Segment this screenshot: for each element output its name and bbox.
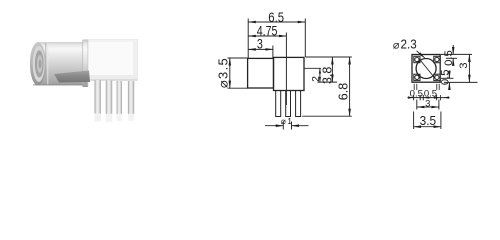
rv ext square bottom [444, 81, 478, 83]
rv ext pin top center [446, 57, 457, 59]
dim line phi3.5 [229, 58, 231, 88]
rv ext 3 left [416, 100, 418, 110]
dim line 6.5 [248, 21, 305, 23]
side view barrel rectangle [248, 58, 274, 88]
corner pad BR [434, 74, 440, 80]
rv dim 0.5 top lower seg [452, 58, 454, 65]
rv chain tick 4 [440, 95, 442, 100]
photo body white block [87, 40, 138, 81]
svg-text:3.5: 3.5 [420, 114, 437, 128]
svg-text:0.5: 0.5 [440, 69, 452, 85]
side view pin left [276, 91, 281, 117]
dim phi1 tick right [291, 122, 293, 130]
svg-text:⌀: ⌀ [281, 116, 287, 126]
rv ext 3.5 right [440, 112, 442, 130]
rv dim 0.5 top upper seg [452, 45, 454, 54]
rv pin ext b [416, 84, 418, 90]
photo barrel bottom edge [33, 84, 83, 86]
corner pin circle BL [415, 75, 419, 79]
ext line left shared [247, 19, 249, 59]
photo barrel flange [83, 40, 89, 88]
photo barrel front face ellipse [30, 42, 46, 85]
dim line 2 [319, 68, 321, 82]
svg-text:3: 3 [425, 98, 430, 109]
svg-text:3.8: 3.8 [320, 67, 334, 84]
svg-text:0.5: 0.5 [424, 88, 437, 98]
ext line 3 [272, 46, 274, 59]
photo barrel bevel lines [45, 43, 47, 85]
photo pins [95, 80, 135, 114]
corner pad TL [414, 56, 420, 62]
rv dim 3 bottom line [417, 106, 439, 108]
svg-text:3: 3 [257, 37, 263, 52]
rv ext square top [441, 53, 472, 55]
rv chain tick 1 [413, 95, 415, 100]
rv pin ext c [436, 84, 438, 90]
corner pad BL [414, 74, 420, 80]
rv ext 3.5 left [413, 112, 415, 130]
chain arrowheads [408, 96, 414, 98]
right ext mid [305, 67, 322, 69]
dim phi1 left line [265, 125, 283, 127]
ext line 4.75 through body [285, 33, 287, 106]
bottom view outer square [412, 55, 440, 83]
photo barrel cylinder [30, 40, 88, 88]
rv dim 3.5 line [414, 126, 441, 128]
dim line 4.75 [248, 35, 286, 37]
corner pin circle TR [435, 57, 439, 61]
right ext top body [306, 56, 352, 58]
photo pin shadows [95, 114, 135, 122]
dim phi1 tick left [282, 122, 284, 130]
rv pad ext d [438, 84, 440, 90]
leader arrowhead [419, 52, 425, 58]
svg-text:2.3: 2.3 [401, 37, 417, 51]
ext line right of 6.5 [304, 19, 306, 58]
svg-text:⌀3.5: ⌀3.5 [215, 57, 230, 88]
rv dim 0.5 bottom upper seg [448, 71, 450, 79]
svg-text:3: 3 [458, 62, 470, 68]
rv pad ext a [413, 84, 415, 90]
photo dark underside wedge [54, 71, 90, 83]
corner pad TR [434, 56, 440, 62]
dim line 6.8 [349, 57, 351, 116]
rv bottom chain line [408, 97, 450, 99]
rv ext pin bottom center [441, 77, 454, 79]
svg-text:1: 1 [287, 116, 292, 126]
svg-text:0.5: 0.5 [410, 88, 423, 98]
svg-text:0.5: 0.5 [443, 50, 455, 66]
rv dim 0.5 bottom lower seg [448, 82, 450, 88]
center barrel circle [416, 59, 436, 79]
svg-text:6.8: 6.8 [336, 83, 350, 100]
rv dim 3 vertical [468, 54, 470, 82]
dim phi1 right line [292, 125, 309, 127]
dim line 3.8 [331, 57, 333, 82]
svg-text:⌀: ⌀ [393, 39, 400, 51]
corner pin circle TL [415, 57, 419, 61]
dim line 3 [248, 48, 273, 50]
corner pin circle BR [435, 75, 439, 79]
side view pin middle [286, 91, 291, 117]
side view body rectangle [274, 57, 305, 90]
dim phi3.5 ext top [228, 57, 248, 59]
rv chain tick 2 [422, 95, 424, 100]
rv chain tick 3 [436, 95, 438, 100]
right ext 82 [318, 81, 338, 83]
dim phi3.5 ext bottom [228, 87, 248, 89]
side view pin right [296, 91, 301, 117]
leader line phi2.3 [417, 51, 425, 58]
leader slash through circle [419, 59, 435, 78]
ext pin bottom for 6.8 [302, 115, 352, 117]
rv ext 3 right [438, 100, 440, 110]
